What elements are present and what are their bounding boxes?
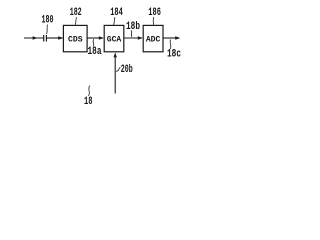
leader 18 [88, 86, 89, 96]
svg-text:20b: 20b [121, 64, 133, 76]
wire CDS to GCA [87, 37, 103, 39]
wire GCA to ADC [124, 37, 142, 39]
arrowhead up into GCA bottom [114, 52, 117, 57]
wire 20b vertical [114, 58, 116, 94]
svg-text:184: 184 [110, 7, 123, 19]
capacitor 180 [44, 35, 47, 42]
svg-text:18c: 18c [167, 49, 181, 61]
svg-text:CDS: CDS [68, 35, 83, 44]
leader 18c [169, 40, 172, 49]
wire capacitor to CDS [47, 37, 63, 39]
arrowhead output 18c [175, 36, 180, 39]
leader 20b [116, 68, 120, 72]
svg-text:18a: 18a [88, 46, 102, 58]
leader 18b [131, 30, 132, 37]
box GCA [104, 25, 124, 51]
svg-text:ADC: ADC [146, 35, 161, 44]
svg-text:18b: 18b [126, 21, 140, 33]
box CDS [63, 25, 87, 51]
box ADC [143, 25, 163, 51]
svg-text:18: 18 [84, 96, 93, 108]
arrowhead into CDS [58, 36, 63, 39]
leader 18a [92, 39, 95, 46]
svg-text:186: 186 [148, 7, 161, 19]
svg-text:182: 182 [70, 7, 82, 19]
leader 186 [152, 17, 155, 25]
svg-text:GCA: GCA [107, 35, 122, 44]
arrowhead input mid [33, 36, 38, 39]
arrowhead into GCA [99, 36, 104, 39]
arrowhead into ADC [138, 36, 143, 39]
wire ADC output [163, 37, 179, 39]
wire input segment [24, 37, 43, 39]
leader 182 [75, 17, 76, 25]
leader 180 [46, 25, 47, 35]
leader 184 [114, 17, 115, 25]
